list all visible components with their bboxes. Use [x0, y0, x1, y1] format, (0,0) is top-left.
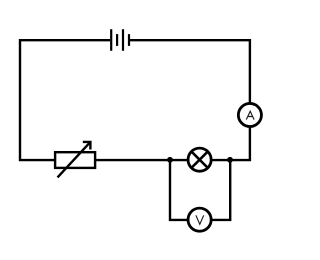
rheostat arrowhead — [83, 142, 91, 150]
wire: top-left horizontal + left vertical + bottom-left to rheostat — [20, 40, 110, 160]
variable resistor (rheostat) body — [55, 152, 95, 168]
battery B1 cell plate short 2 — [128, 34, 130, 46]
battery B1 cell plate long 1 — [110, 29, 112, 51]
wire: voltmeter parallel branch — [170, 160, 230, 220]
wire: bottom main segment from rheostat through lamp junctions — [93, 159, 232, 161]
node: right junction dot — [227, 157, 233, 163]
lamp L1 body — [188, 148, 211, 171]
rheostat arrow shaft — [58, 142, 91, 178]
battery B1 cell plate long 2 — [122, 29, 124, 51]
lamp L1 cross — [191, 152, 207, 168]
wire: top-right horizontal + right vertical down through ammeter to right dot — [129, 40, 250, 160]
voltmeter V — [188, 208, 211, 231]
ammeter A — [238, 103, 261, 126]
battery B1 cell plate short 1 — [116, 34, 118, 46]
node: left junction dot — [167, 157, 173, 163]
